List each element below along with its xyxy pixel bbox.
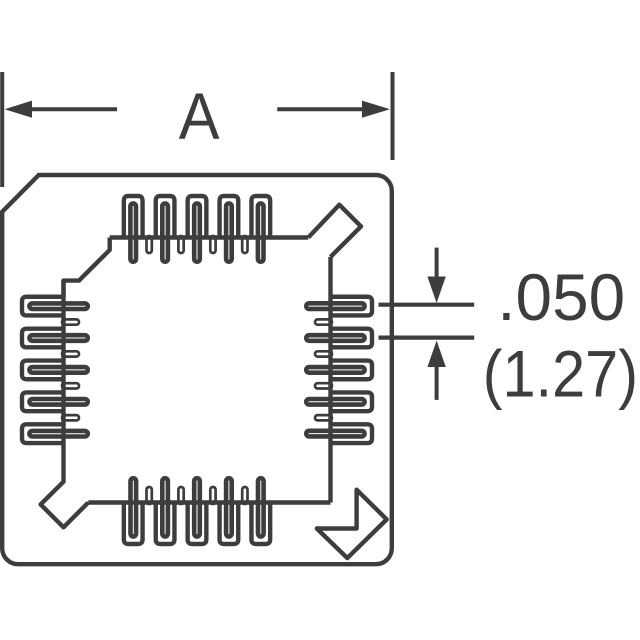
top side baseline wire [110, 235, 309, 239]
right side baseline wire [328, 257, 332, 503]
dimension A left arrow [30, 107, 117, 111]
bottom pad row [124, 478, 270, 544]
top pad row [124, 196, 270, 262]
svg-text:A: A [179, 81, 220, 153]
bottom-left chevron trace [41, 443, 89, 527]
pitch dimension lower reference line [379, 336, 475, 340]
right pad column [306, 297, 372, 443]
bottom side baseline wire [88, 500, 330, 504]
svg-text:.050: .050 [497, 261, 625, 334]
dimension A right arrow [277, 107, 363, 111]
pitch dimension up arrow [435, 365, 439, 400]
top-right corner notch trace [308, 205, 361, 257]
left side baseline wire [61, 281, 65, 444]
pitch dimension upper reference line [379, 303, 475, 307]
top-left corner trace [64, 238, 110, 297]
pitch dimension down arrow [435, 248, 439, 280]
pin-1 arrow in bottom-right corner [317, 490, 387, 558]
dimension A left extension line [0, 72, 4, 187]
svg-text:(1.27): (1.27) [483, 338, 638, 411]
dimension A right extension line [391, 72, 395, 160]
socket body outline [2, 175, 392, 564]
left pad column [22, 297, 88, 443]
